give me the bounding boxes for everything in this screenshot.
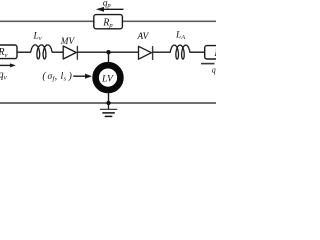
- wire AV to L_A: [153, 51, 171, 53]
- wire L_A to R_A: [190, 51, 205, 53]
- voltage source LV (vocal folds): [96, 65, 121, 90]
- wire L_v to MV: [52, 51, 63, 53]
- junction node (bottom of LV branch): [106, 101, 110, 105]
- svg-text:q: q: [212, 65, 216, 74]
- diode AV: [139, 46, 153, 60]
- resistor R_A (cut at right edge): [205, 46, 234, 59]
- ground: [100, 103, 117, 116]
- wire top rail left segment: [0, 20, 94, 22]
- svg-text:Lv: Lv: [33, 32, 42, 43]
- wire top rail right segment: [122, 20, 216, 22]
- svg-text:qv: qv: [0, 70, 8, 82]
- resistor R_p: [94, 15, 123, 29]
- resistor R_v (cut at left edge): [0, 45, 17, 59]
- wire bottom rail: [0, 102, 216, 104]
- diode MV: [63, 46, 77, 60]
- wire LV to bottom rail: [108, 93, 110, 104]
- svg-text:RA: RA: [213, 48, 216, 60]
- svg-text:LV: LV: [101, 73, 114, 84]
- wire R_v to L_v: [17, 51, 31, 53]
- flow arrow q_p (points left): [96, 7, 124, 12]
- wire junction to LV: [108, 52, 110, 63]
- flow arrow q_v (points right, cut at left): [0, 63, 16, 67]
- junction node (top of LV branch): [106, 50, 110, 54]
- flow arrow q_A (cut at right edge): [201, 63, 215, 65]
- parameter arrow into LV: [73, 74, 92, 79]
- svg-text:(σf,ls): (σf,ls): [42, 71, 72, 83]
- svg-text:AV: AV: [137, 31, 150, 41]
- svg-text:LA: LA: [175, 31, 185, 42]
- wire MV to AV: [77, 51, 138, 53]
- inductor L_v: [31, 45, 52, 59]
- inductor L_A: [170, 45, 190, 59]
- svg-text:MV: MV: [60, 36, 76, 46]
- svg-text:qp: qp: [103, 0, 111, 9]
